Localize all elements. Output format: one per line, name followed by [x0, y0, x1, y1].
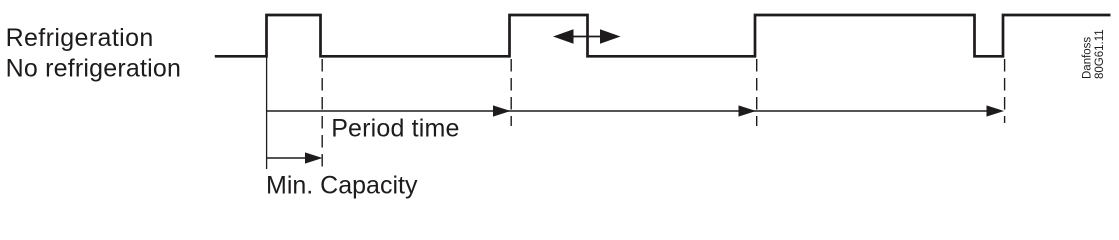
svg-text:80G61.11: 80G61.11 — [1094, 29, 1106, 79]
waveform refrigeration on/off trace — [215, 15, 1111, 56]
svg-text:No refrigeration: No refrigeration — [6, 54, 182, 82]
double-headed arrow at pulse2 falling edge — [553, 29, 621, 43]
svg-text:Danfoss: Danfoss — [1081, 37, 1093, 79]
extension line below pulse1 rising edge (solid) — [266, 56, 268, 169]
min capacity arrowhead — [305, 152, 323, 163]
dashed extension line below pulse4 rising edge — [1004, 59, 1006, 123]
arrowhead at pulse3 rising edge — [739, 105, 757, 116]
svg-text:Min. Capacity: Min. Capacity — [266, 172, 418, 200]
min capacity dimension line — [267, 157, 307, 159]
dashed extension line below pulse3 rising edge — [756, 59, 758, 126]
arrowhead at pulse2 rising edge — [493, 105, 511, 116]
svg-text:Period time: Period time — [331, 115, 459, 143]
svg-text:Refrigeration: Refrigeration — [6, 24, 154, 52]
period time dimension line — [267, 110, 1001, 112]
dashed extension line below pulse2 rising edge — [510, 59, 512, 126]
arrowhead at pulse4 rising edge — [987, 105, 1005, 116]
dashed extension line below pulse1 falling edge — [321, 59, 323, 169]
